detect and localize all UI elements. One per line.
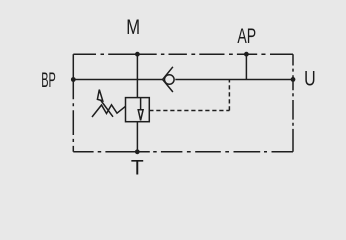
svg-text:AP: AP bbox=[237, 24, 256, 47]
wire BP to check valve bbox=[73, 79, 162, 81]
svg-text:BP: BP bbox=[41, 68, 56, 92]
wire check valve to U bbox=[175, 79, 293, 81]
pilot line horizontal (dashed) bbox=[149, 110, 229, 112]
svg-text:U: U bbox=[304, 66, 316, 90]
svg-text:M: M bbox=[126, 16, 140, 39]
node T junction dot bbox=[135, 149, 140, 154]
relief valve RV flow arrow shaft bbox=[140, 98, 142, 111]
relief valve RV adjustment arrow head bbox=[97, 90, 102, 101]
relief valve RV flow arrow head bbox=[138, 110, 143, 121]
check valve V1 ball bbox=[165, 75, 175, 85]
enclosure bottom border (dash-dot) bbox=[73, 151, 293, 153]
wire valve outlet to T bbox=[136, 122, 138, 152]
check valve V1 seat bbox=[163, 67, 173, 92]
relief valve RV body bbox=[126, 98, 150, 122]
node M junction dot bbox=[135, 52, 140, 57]
enclosure left border lower (dash-dot) bbox=[72, 80, 74, 152]
wire M line bbox=[136, 54, 138, 97]
svg-text:T: T bbox=[131, 157, 144, 180]
wire AP line bbox=[245, 54, 247, 79]
pilot line vertical (dashed) bbox=[228, 80, 230, 111]
relief valve RV adjustment arrow shaft bbox=[101, 100, 114, 117]
node U junction dot bbox=[291, 77, 296, 82]
relief valve RV spring bbox=[92, 105, 126, 117]
node BP junction dot bbox=[71, 77, 76, 82]
enclosure right border (dash-dot) bbox=[292, 54, 294, 152]
enclosure left border upper (solid to BP node) bbox=[72, 54, 74, 79]
node AP junction dot bbox=[244, 52, 249, 57]
enclosure top border (dash-dot) bbox=[73, 53, 293, 55]
